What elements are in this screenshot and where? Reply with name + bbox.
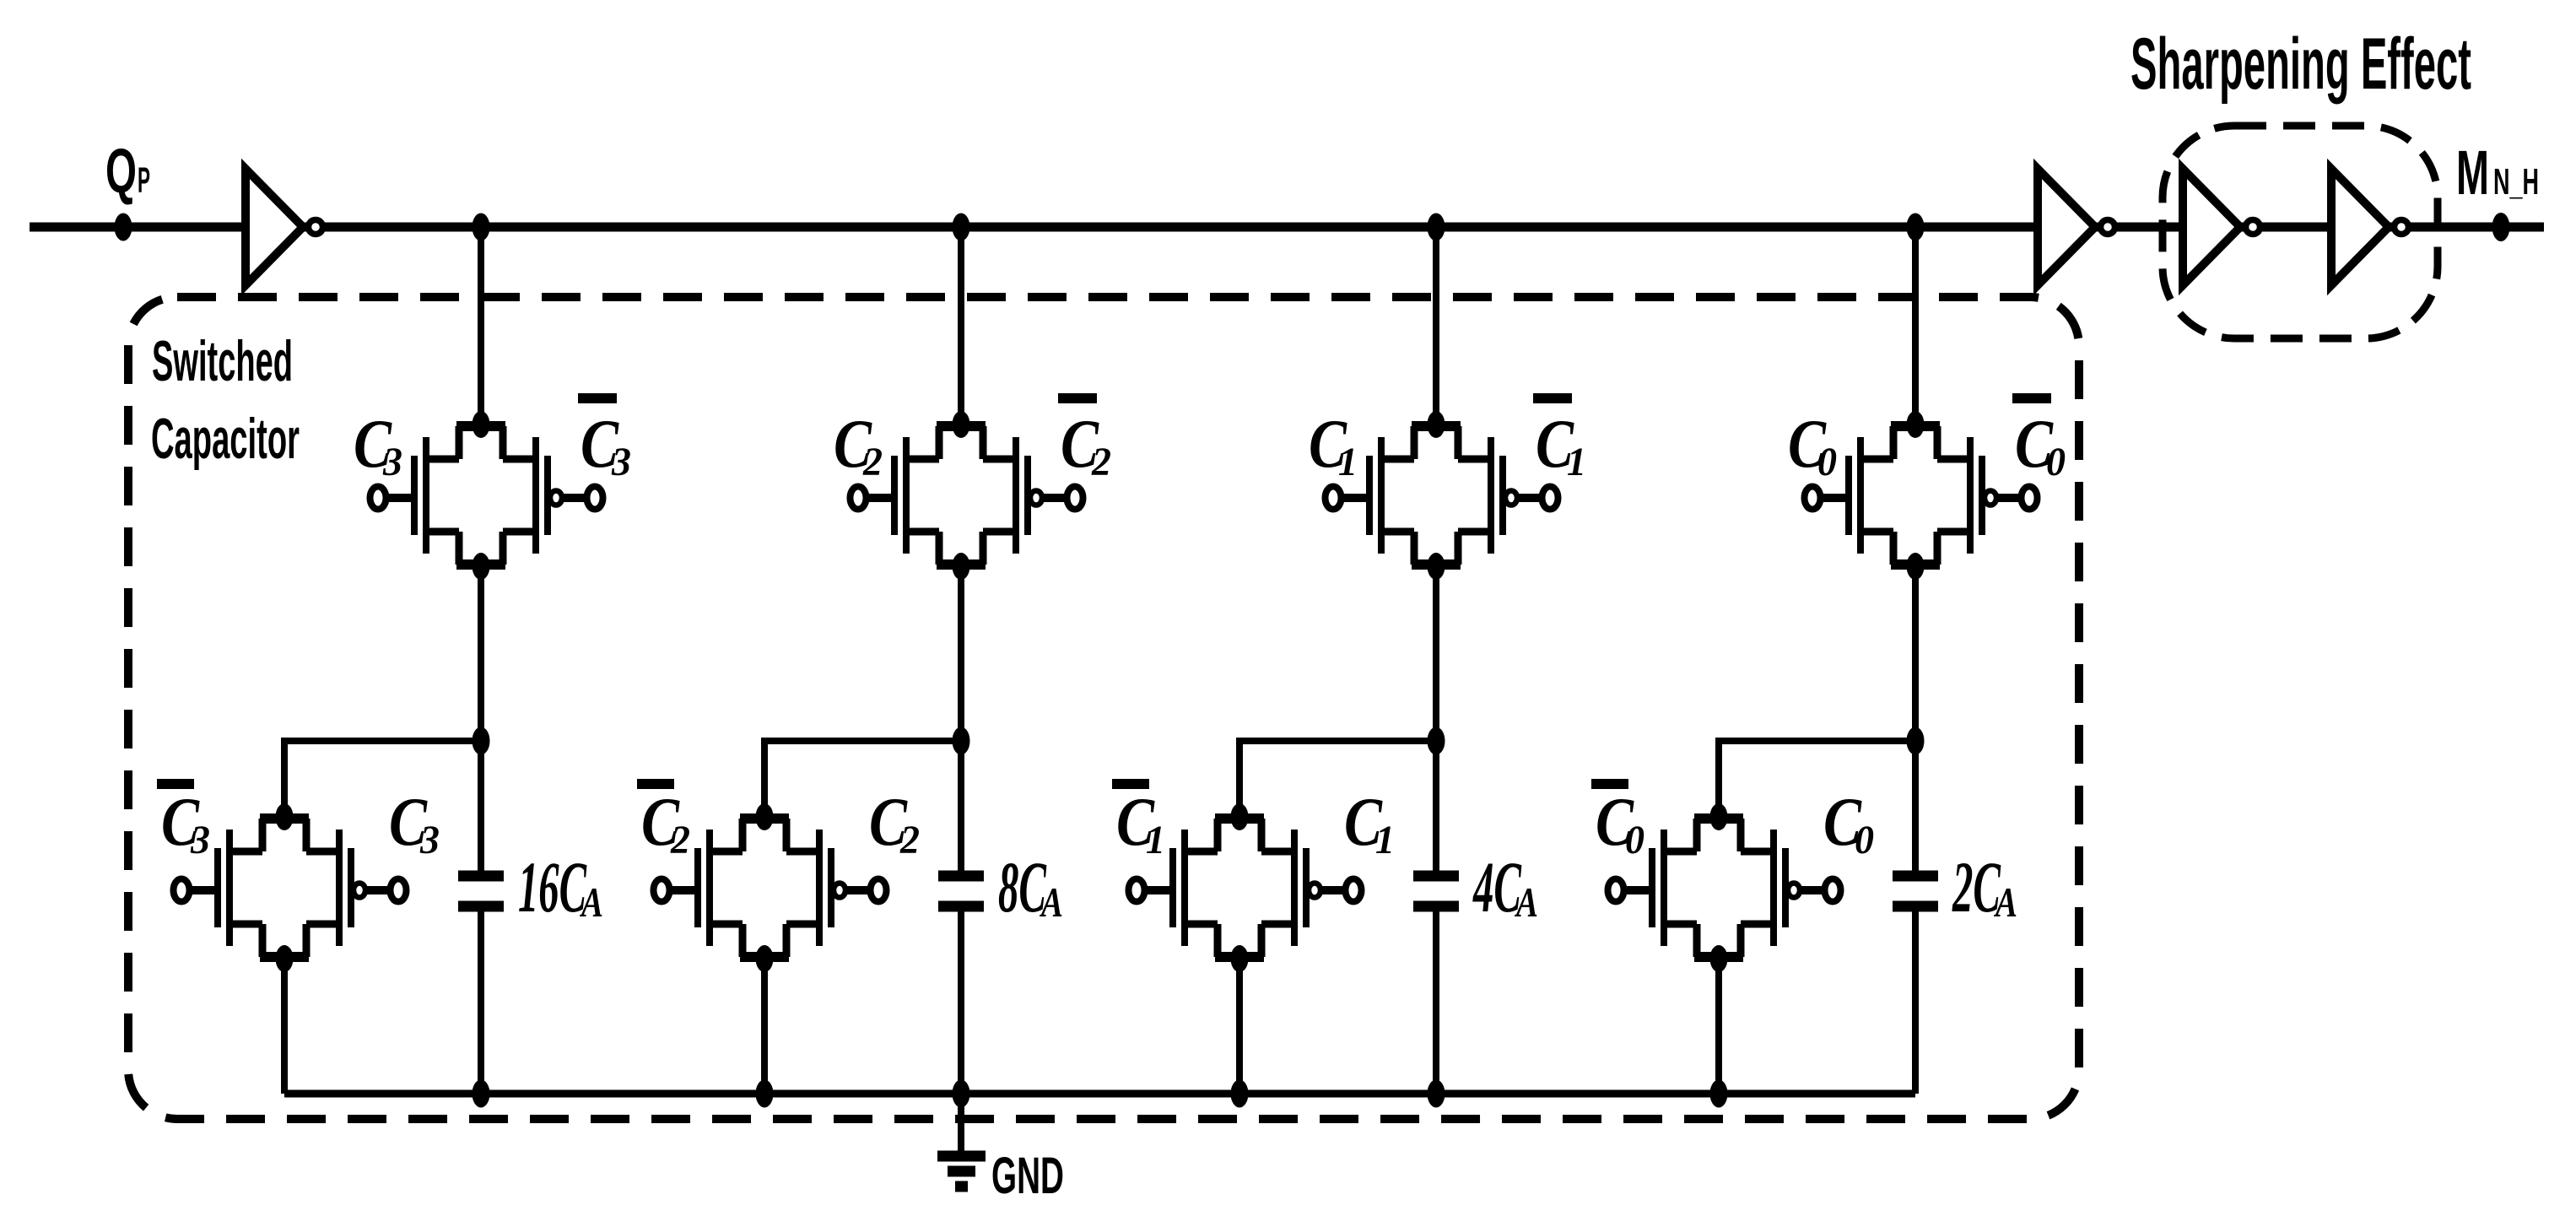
svg-text:Q: Q (105, 136, 137, 206)
node output MN_H (2492, 213, 2510, 241)
svg-text:N_H: N_H (2493, 161, 2539, 203)
transmission gate TG3b (discharge, C1bar/C1) (1129, 803, 1362, 972)
wire branch 2: discharge gate to ground bus (761, 959, 768, 1094)
wire branch 4: top wire down to pass gate (1912, 227, 1919, 424)
wire branch 1: mid node to discharge gate (284, 741, 481, 817)
node mid junction branch 4 (1907, 727, 1925, 755)
wire branch 2: capacitor to ground bus (958, 911, 964, 1094)
capacitor 8CA (938, 871, 984, 882)
svg-text:0: 0 (1625, 818, 1644, 862)
wire branch 4: mid node down to capacitor (1912, 741, 1919, 881)
svg-text:2: 2 (670, 818, 690, 862)
wire branch 1: pass gate to mid node (478, 566, 484, 741)
svg-text:A: A (1994, 878, 2017, 926)
svg-text:2: 2 (899, 818, 920, 862)
label C2bar (left gate input of TG2b) (637, 779, 674, 789)
svg-text:2: 2 (1091, 440, 1111, 484)
label C3bar (left gate input of TG1b) (157, 779, 194, 789)
svg-text:A: A (1515, 878, 1538, 926)
svg-text:2C: 2C (1952, 846, 2001, 927)
wire branch 3: discharge gate to ground bus (1236, 959, 1243, 1094)
svg-text:0: 0 (1817, 440, 1837, 484)
node bus junction capacitor 1 (473, 1080, 490, 1108)
wire branch 2: mid node to discharge gate (764, 741, 961, 817)
wire branch 3: top wire down to pass gate (1433, 227, 1439, 424)
wire branch 3: pass gate to mid node (1433, 566, 1439, 741)
wire branch 4: discharge gate to ground bus (1715, 959, 1722, 1094)
wire branch 3: mid node down to capacitor (1433, 741, 1439, 881)
svg-text:1: 1 (1146, 818, 1165, 862)
svg-text:3: 3 (382, 440, 402, 484)
node bus junction capacitor 3 (1428, 1080, 1445, 1108)
dashed box: Switched Capacitor block (128, 297, 2079, 1119)
inverter U3 (2183, 169, 2260, 285)
node mid junction branch 1 (473, 727, 490, 755)
svg-text:3: 3 (190, 818, 210, 862)
wire branch 3: capacitor to ground bus (1433, 911, 1439, 1094)
capacitor 16CA (458, 871, 504, 882)
svg-text:16C: 16C (518, 846, 587, 927)
transmission gate TG1b (discharge, C3bar/C3) (174, 803, 407, 972)
wire: main horizontal net from Qp input to output (30, 223, 2544, 232)
svg-text:4C: 4C (1472, 846, 1522, 927)
wire branch 4: mid node to discharge gate (1719, 741, 1915, 817)
svg-text:1: 1 (1375, 818, 1395, 862)
node top junction branch 4 (1907, 213, 1925, 241)
transmission gate TG4b (discharge, C0bar/C0) (1608, 803, 1841, 972)
svg-text:3: 3 (419, 818, 440, 862)
wire branch 1: discharge gate to ground bus (281, 959, 288, 1094)
node top junction branch 1 (473, 213, 490, 241)
label C0bar (left gate input of TG4b) (1591, 779, 1628, 789)
transmission gate TG1a (controls C3/C3bar) (370, 411, 603, 580)
wire branch 2: top wire down to pass gate (958, 227, 964, 424)
svg-text:0: 0 (2046, 440, 2066, 484)
inverter U2 (2038, 169, 2115, 285)
wire branch 3: mid node to discharge gate (1239, 741, 1436, 817)
svg-text:P: P (138, 160, 150, 201)
svg-text:M: M (2456, 138, 2489, 208)
svg-text:Capacitor: Capacitor (151, 407, 300, 471)
label C2bar (right gate input of TG2a) (1058, 393, 1097, 403)
node bus junction discharge gate 3 (1231, 1080, 1249, 1108)
node mid junction branch 2 (953, 727, 970, 755)
label C0bar (right gate input of TG4a) (2012, 393, 2051, 403)
node top junction branch 3 (1428, 213, 1445, 241)
node top junction branch 2 (953, 213, 970, 241)
wire branch 1: top wire down to pass gate (478, 227, 484, 424)
transmission gate TG2b (discharge, C2bar/C2) (654, 803, 887, 972)
transmission gate TG3a (controls C1/C1bar) (1326, 411, 1558, 580)
node bus junction capacitor 2 (953, 1080, 970, 1108)
svg-text:0: 0 (1855, 818, 1874, 862)
capacitor 4CA (1413, 871, 1459, 882)
transmission gate TG2a (controls C2/C2bar) (851, 411, 1083, 580)
svg-text:3: 3 (611, 440, 631, 484)
label C1bar (right gate input of TG3a) (1533, 393, 1572, 403)
wire: bus to ground symbol (958, 1094, 964, 1151)
wire branch 2: mid node down to capacitor (958, 741, 964, 881)
svg-text:1: 1 (1338, 440, 1358, 484)
svg-text:1: 1 (1567, 440, 1586, 484)
node bus junction discharge gate 2 (756, 1080, 774, 1108)
wire branch 4: pass gate to mid node (1912, 566, 1919, 741)
capacitor 2CA (1893, 871, 1938, 882)
wire branch 2: pass gate to mid node (958, 566, 964, 741)
label C1bar (left gate input of TG3b) (1112, 779, 1149, 789)
transmission gate TG4a (controls C0/C0bar) (1805, 411, 2038, 580)
svg-text:Sharpening Effect: Sharpening Effect (2130, 24, 2471, 105)
inverter U4 (2331, 169, 2409, 285)
label C3bar (right gate input of TG1a) (578, 393, 617, 403)
node bus junction discharge gate 4 (1710, 1080, 1728, 1108)
wire branch 1: capacitor to ground bus (478, 911, 484, 1094)
dashed box: Sharpening Effect block (2163, 126, 2438, 338)
wire branch 1: mid node down to capacitor (478, 741, 484, 881)
inverter U1 (input buffer) (246, 169, 323, 285)
ground (937, 1151, 986, 1162)
svg-text:A: A (580, 878, 603, 926)
svg-text:Switched: Switched (152, 329, 293, 393)
svg-text:2: 2 (862, 440, 883, 484)
svg-text:A: A (1040, 878, 1063, 926)
svg-text:8C: 8C (998, 846, 1047, 927)
node mid junction branch 3 (1428, 727, 1445, 755)
wire branch 4: capacitor to ground bus (1912, 911, 1919, 1094)
svg-text:GND: GND (991, 1147, 1064, 1204)
node Qp input junction (115, 213, 132, 241)
wire: ground bus (284, 1090, 1915, 1098)
